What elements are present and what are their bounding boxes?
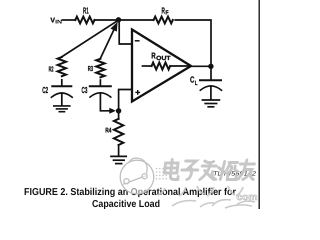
wire RF to output corner [175,20,211,64]
ground under C2 [54,106,70,112]
ground under R4 [111,156,126,163]
resistor ROUT [152,63,171,70]
watermark tails over caption [158,186,243,196]
wire node to RF [119,19,154,21]
resistor RF [154,17,173,24]
svg-text:F: F [165,10,168,17]
capacitor C2 [51,86,72,97]
wire R1 to node [95,19,119,21]
svg-text:R1: R1 [83,5,89,15]
op-amp ROUT lead [143,65,152,67]
char zi [181,161,199,180]
wire R4 to ground [118,145,120,156]
wire plus input [119,90,132,111]
wire R3 to C3 [99,80,101,86]
svg-text:IN: IN [55,20,62,26]
node A junction dot [116,17,121,22]
char fa [200,161,218,180]
resistor R4 [114,119,123,145]
resistor R3 [96,59,104,77]
resistor R1 [75,17,94,24]
capacitor CL [200,80,222,90]
arrowhead on C3 wire [109,108,116,114]
svg-text:L: L [195,80,198,87]
node B junction dot (R4 top) [116,108,121,113]
wire diagonal node to R2 [62,20,118,56]
char shao [217,162,238,180]
wire ROUT to apex [171,65,189,67]
op-amp plus sign [135,90,140,95]
wire C2 to ground [61,93,63,105]
char dian [164,160,180,180]
ground under CL [202,100,219,107]
svg-text:R: R [151,50,156,60]
svg-text:R3: R3 [88,64,93,73]
svg-text:R4: R4 [105,128,111,135]
resistor R2 [58,57,66,76]
svg-text:C2: C2 [42,85,48,95]
output node junction dot [208,64,213,69]
wire CL to ground [210,86,212,100]
capacitor C3 [90,86,111,97]
svg-text:Capacitive Load: Capacitive Load [92,199,160,209]
wire node to R4 [118,111,120,119]
svg-text:C3: C3 [82,85,88,95]
arrowhead on R3 diagonal [110,22,117,32]
wire node down to minus input [119,20,131,44]
wire diagonal R3 to node with arrowhead [100,30,114,59]
watermark dot grid [156,168,167,180]
svg-text:OUT: OUT [156,55,171,62]
op-amp U1 triangle [132,30,191,102]
watermark bottom swirl [172,200,255,208]
svg-text:R2: R2 [49,64,54,73]
op-amp minus sign [135,40,140,42]
char you [238,160,255,180]
watermark characters (stylized) [164,160,256,180]
wire R2 to C2 [61,80,63,86]
wire output to CL [210,66,212,79]
wire C3 down and right to node with arrowhead [100,93,108,111]
wire output [191,65,211,67]
watermark logo circle [120,158,154,194]
column rule [258,0,260,209]
wire VIN stub [62,19,75,21]
